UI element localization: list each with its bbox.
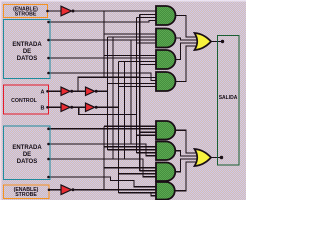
wire strobe2 row to gate G8 [75,189,157,191]
wire G8 output to OR [175,162,198,191]
node data D7 output [47,176,50,179]
OR gate bottom [195,149,212,166]
wire distribution column 3 [130,40,132,144]
svg-text:STROBE: STROBE [15,192,37,198]
node OR2 output terminal [220,156,223,159]
wire strobe1 stub G4 [104,77,156,79]
AND gate G6 [156,142,175,161]
wire OR2 output [211,157,222,159]
wire A stub G4 [108,83,157,85]
wire A-comp stub G5 [140,131,156,133]
wire B stub G8 [119,192,157,194]
wire distribution column 2 [124,62,126,160]
wire data D6 [48,159,156,177]
wire A true column [107,37,109,150]
wire A true to column [98,90,108,92]
node control A output [46,90,49,93]
node data D5 output [47,143,50,146]
node data D3 output [47,72,50,75]
wire strobe1 column [103,11,105,78]
svg-text:CONTROL: CONTROL [11,98,37,104]
svg-text:SALIDA: SALIDA [219,95,238,101]
wire B-comp stub G6 [136,152,156,154]
inverter strobe2 [61,185,72,195]
wire B true to column [98,106,119,108]
strobe2 enable box [4,185,50,199]
wire B-comp stub G1 [136,17,156,19]
wire A-comp stub G7 [140,170,156,172]
wire B-complement segment [73,106,85,108]
wire B-complement tap [79,107,137,114]
wire A-comp stub G3 [140,64,156,66]
wire strobe2 stub G5 [104,125,156,127]
wire data D3 [48,73,156,81]
wire data D5 [48,144,156,156]
svg-text:DE: DE [23,49,31,55]
AND gate G4 [156,72,175,91]
entrada de datos box top [4,20,51,79]
salida output box [218,36,240,166]
wire control B from box [48,106,62,108]
wire distribution column [112,37,114,159]
node strobe2 output [48,188,51,191]
node OR1 output terminal [221,40,224,43]
node data D2 output [47,57,50,60]
wire G2 output to OR [176,38,198,40]
OR gate top [195,33,212,50]
svg-text:DATOS: DATOS [17,159,37,165]
wire A-comp stub G1 [140,14,156,16]
wire A column link G4 [107,83,109,85]
wire B-comp stub G2 [136,42,156,44]
wire strobe1 stub G3 [104,55,156,57]
wire B stub G3 [119,61,157,63]
inverter strobe1 [61,6,72,16]
svg-text:DATOS: DATOS [17,56,37,62]
wire A-complement segment [73,90,85,92]
AND gate G3 [156,50,176,69]
inverter B first [61,103,70,111]
inverter A first [61,87,70,95]
AND gate G8 [156,182,175,200]
strobe1 enable box [4,5,48,18]
wire data D1 straight into G2 [48,39,156,41]
svg-text:DE: DE [23,152,31,158]
AND gate G5 [156,121,175,140]
AND gate G2 [156,29,176,48]
control box [4,85,49,114]
wire strobe2 stub G7 [104,167,156,169]
wire G8 bottom row stub [151,193,156,196]
wire data D2 straight into G3 [48,57,156,59]
wire strobe2 stub G6 [104,146,156,148]
node data D0 output [47,21,50,24]
node data D1 output [47,39,50,42]
entrada de datos box bottom [4,126,51,180]
wire control A from box [48,90,62,92]
svg-text:ENTRADA: ENTRADA [12,42,42,48]
inverter A second [86,87,95,95]
wire A-complement column [139,15,141,171]
wire strobe2 column [103,126,105,190]
node data D4 output [47,128,50,131]
wire A stub G6 [108,149,157,151]
AND gate G1 [156,6,176,25]
svg-text:B: B [41,105,45,111]
svg-text:A: A [41,89,45,95]
wire data D7 [48,177,156,187]
wire A-complement tap [78,77,140,91]
wire data D4 straight into G5 [48,128,156,130]
node control B output [46,106,49,109]
wire strobe2 from box [49,189,61,191]
AND gate G7 [156,163,175,182]
wire G5 output to OR [175,130,197,153]
svg-text:ENTRADA: ENTRADA [12,145,42,151]
wire A stub G2 [108,36,157,38]
wire OR1 output [211,41,223,43]
wire B true column [118,62,120,193]
wire strobe1 row to gate G1 [75,10,157,12]
wire G7 output to OR [175,159,197,172]
inverter B second [86,103,95,111]
wire B-comp stub G5 [136,134,156,136]
wire strobe1 from box [48,10,61,12]
wire B stub G7 [119,173,157,175]
wire data D0 [48,21,156,23]
node data D6 output [47,158,50,161]
svg-text:STROBE: STROBE [15,12,37,18]
wire G6 output to OR [175,151,197,156]
wire G3 output to OR [176,43,198,60]
wire G4 output to OR [176,46,198,82]
wire B-complement column [135,18,137,153]
wire B stub G4 [119,86,157,88]
wire G1 output to OR [176,16,198,38]
wire strobe1 stub G2 [104,33,156,35]
node strobe1 output [46,10,49,13]
